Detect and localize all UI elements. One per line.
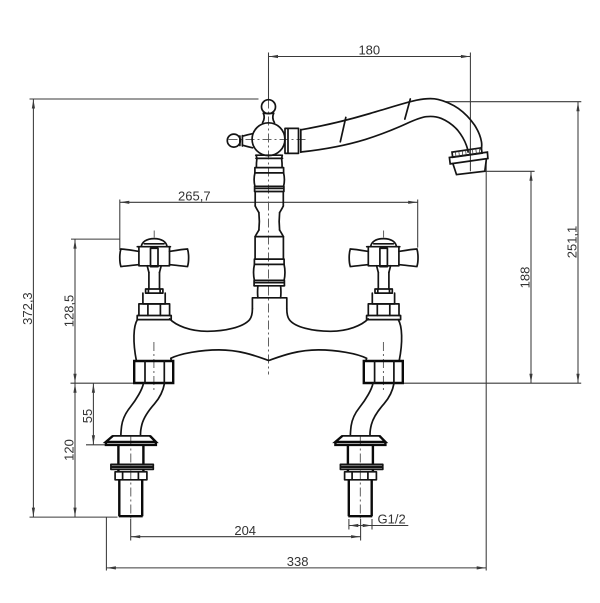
neck 1 [256,158,282,167]
washers [111,464,153,466]
ext bottom (tail end) [30,516,118,518]
spout tube bottom edge [301,116,468,152]
left big hex nut [134,361,173,383]
sphere to column taper [256,155,282,158]
ball neck [263,113,265,122]
svg-text:180: 180 [358,43,380,58]
dim 265,7 ext left [119,200,121,251]
aerator knurl hatch [455,148,479,157]
spout segment tick 1 [340,117,346,141]
svg-text:188: 188 [518,267,533,289]
bonnet [143,293,165,304]
dim 204 line [131,536,361,538]
left valve bottom right tiny edge [170,358,172,361]
stem trapezoid [147,266,161,273]
ext right tail center [360,519,362,541]
svg-text:204: 204 [234,523,256,538]
svg-text:265,7: 265,7 [178,188,211,203]
spout tube top edge [301,99,482,150]
dim 180 line [269,56,471,58]
dome plate [137,246,170,248]
centerline right valve [382,342,384,393]
deck extension line left [71,382,135,384]
aerator ring top [452,148,482,158]
shank [118,445,143,465]
cylinder 2 [255,237,283,260]
flange [113,435,150,437]
barrel 1 [254,173,284,186]
bridge bottom [171,350,367,361]
dome chord [144,243,164,245]
barrel 2 [254,264,285,280]
centerline right leg shank [359,437,361,520]
dim 372,3 line [32,99,34,517]
right wing [170,249,189,267]
spout segment tick 2 [405,99,411,119]
base collar [252,298,286,309]
main sphere body [252,123,285,156]
sphere bottom cut [256,154,281,156]
G1/2 leader [372,525,408,527]
dim 251,1 line [577,102,579,384]
flare disc [137,316,171,320]
left valve body left edge [134,320,137,361]
G1/2 ext lines [348,519,350,530]
centerline sphere horizontal [229,138,307,140]
aerator ring knurl [449,152,488,164]
taper to waist [255,206,283,213]
dim 180 arrows [269,55,278,58]
side knob neck [242,134,252,137]
stem ring [146,289,163,293]
column turned profile [252,155,286,309]
aerator body [453,159,487,175]
bead 1 [255,168,284,173]
right big hex nut [364,361,403,383]
shank gap [118,469,143,472]
ext spout crest [446,101,581,103]
bead 4 [254,280,284,285]
right valve bottom left tiny edge [365,358,367,361]
bridge top right [287,309,368,332]
handle centerline tick [153,231,155,238]
deck extension line right [398,382,581,384]
svg-text:251,1: 251,1 [565,226,580,259]
dim 180 ext right [469,53,471,172]
neck 2 [254,286,284,298]
right leg [335,383,394,516]
svg-text:372,3: 372,3 [20,292,35,325]
dim 265,7 ext right [417,200,419,248]
ext top (ball top) [30,98,259,100]
dim G1/2 arrows [349,525,372,527]
hub [139,247,170,266]
dim 120 line [74,383,76,517]
cross vertical bar [151,248,159,266]
thin stem [149,272,160,289]
centerline left valve [153,342,155,393]
bridge top left [170,309,253,332]
svg-text:G1/2: G1/2 [378,512,406,527]
ext 338 right (from aerator) [485,161,487,571]
locknut [115,472,147,480]
svg-text:338: 338 [287,554,309,569]
top ball [262,100,276,114]
ext aerator bottom [484,170,535,172]
bead 3 [254,259,284,264]
dim 338 line [106,567,486,569]
bead 2 [255,186,284,191]
spout collar [285,128,301,153]
flare from waist [255,230,283,237]
ext handle top [71,238,120,240]
dim 180 ext left [268,53,270,100]
svg-text:120: 120 [62,439,77,461]
left handle [120,231,189,320]
centerline column [268,100,270,375]
cylinder 1 [255,192,283,207]
side knob ball [227,134,240,147]
svg-text:55: 55 [80,409,95,423]
left leg S-tube [106,383,165,516]
left wing [120,249,139,267]
dome [141,239,167,247]
svg-text:128,5: 128,5 [62,295,77,328]
right handle [349,231,418,320]
waist neck [259,213,280,230]
side knob joint [240,136,243,146]
threaded tail [119,480,142,516]
ext left tail center [130,519,132,541]
junction line [256,157,283,159]
right valve body right edge [398,320,401,361]
dim 188 line [530,171,532,383]
dim 265,7 line [120,201,418,203]
dim 128,5 line [74,239,76,383]
ext 338 left [105,517,107,570]
ext flange bottom [86,444,107,446]
handle hex nut [139,304,170,316]
centerline left leg shank [130,437,132,520]
dim 55 line [92,383,94,445]
